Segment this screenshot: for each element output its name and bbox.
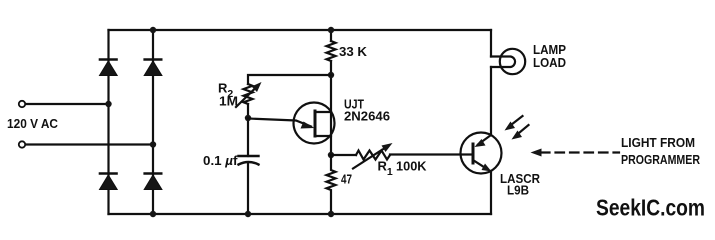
wire: top rail: [109, 29, 492, 31]
junction: B1 / R1 / 47 node: [328, 152, 334, 158]
light arrow 1 into LASCR: [505, 116, 523, 131]
svg-text:SeekIC.com: SeekIC.com: [596, 195, 705, 221]
svg-text:33 K: 33 K: [339, 44, 368, 59]
junction: top AC lead to left column: [105, 101, 111, 107]
potentiometer R1 wiper arrow: [353, 143, 393, 169]
dashed light-from-programmer arrow: [531, 149, 620, 157]
wire: LASCR cathode down to bottom rail: [490, 171, 492, 214]
wire: top rail corner down to lamp: [490, 30, 492, 57]
svg-text:LIGHT FROM: LIGHT FROM: [621, 135, 695, 150]
UJT U1 2N2646 body circle: [294, 103, 335, 144]
svg-text:R1: R1: [378, 159, 393, 179]
UJT B1 lead: [315, 135, 331, 137]
junction: 33K / R2 node: [328, 72, 334, 78]
wire: AC input top lead: [25, 103, 109, 105]
lamp load symbol: filament loop: [491, 57, 515, 68]
wire: lamp bottom down to LASCR anode: [490, 67, 492, 135]
terminal: AC top: [19, 101, 25, 107]
wire: bridge right column: [152, 30, 154, 214]
svg-text:47: 47: [341, 172, 352, 187]
junction: capacitor branch to bottom rail: [245, 211, 251, 217]
LASCR cathode lead: [473, 160, 487, 169]
lamp load symbol: outer circle: [500, 49, 525, 74]
wire: R2 top connector: [248, 75, 331, 84]
potentiometer R1 zigzag: [356, 151, 390, 160]
junction: middle column to top rail: [328, 27, 334, 33]
junction: 47 resistor to bottom rail: [328, 211, 334, 217]
LASCR gate bar: [472, 144, 475, 163]
wire: 33K bottom to UJT B2 node: [330, 61, 332, 155]
resistor 47: [327, 155, 336, 214]
wire: emitter node to UJT emitter: [248, 119, 311, 127]
wire: bridge left column: [107, 30, 109, 214]
wire: R1 to LASCR gate: [390, 153, 473, 155]
diode D1 (bridge top-left): [100, 60, 118, 76]
junction: emitter node: [245, 115, 251, 121]
light arrow 2 into LASCR: [512, 125, 529, 140]
LASCR cathode arrowhead: [482, 164, 492, 172]
diode D2 (bridge top-right): [144, 60, 162, 76]
diode D4 (bridge bottom-right): [144, 174, 162, 190]
svg-text:1M: 1M: [219, 94, 238, 109]
UJT base bar: [314, 111, 317, 136]
LASCR anode arrowhead: [475, 139, 486, 147]
svg-text:100K: 100K: [396, 159, 427, 174]
svg-text:LOAD: LOAD: [533, 55, 566, 70]
diode D3 (bridge bottom-left): [100, 174, 118, 190]
wire: R2 bottom to emitter node: [247, 104, 249, 156]
UJT B2 lead: [315, 111, 331, 113]
wire: bottom rail: [109, 213, 492, 215]
LASCR anode lead: [478, 135, 491, 145]
UJT emitter arrowhead: [301, 122, 315, 129]
terminal: AC bottom: [19, 141, 25, 147]
junction: bottom AC lead to right column: [150, 141, 156, 147]
wire: middle column (33K / UJT branch): [330, 30, 332, 41]
junction: right column to top rail: [150, 27, 156, 33]
wire: capacitor bottom to bottom rail: [247, 164, 249, 215]
capacitor C1 0.1uf bottom plate (curved): [239, 162, 259, 165]
svg-text:PROGRAMMER: PROGRAMMER: [621, 152, 700, 167]
wire: node to R1: [331, 154, 356, 156]
svg-text:120 V AC: 120 V AC: [7, 116, 59, 131]
capacitor C1 0.1uf top plate: [239, 155, 259, 157]
svg-text:L9B: L9B: [507, 183, 529, 198]
potentiometer R2 wiper arrow: [236, 82, 262, 107]
resistor 33K: [327, 41, 336, 61]
wire: AC input bottom lead: [25, 143, 153, 145]
junction: right column to bottom rail: [150, 211, 156, 217]
svg-text:0.1 µf: 0.1 µf: [203, 153, 238, 168]
potentiometer R2 zigzag: [244, 84, 253, 104]
LASCR Q2 body circle: [461, 133, 502, 174]
svg-text:2N2646: 2N2646: [344, 109, 390, 124]
